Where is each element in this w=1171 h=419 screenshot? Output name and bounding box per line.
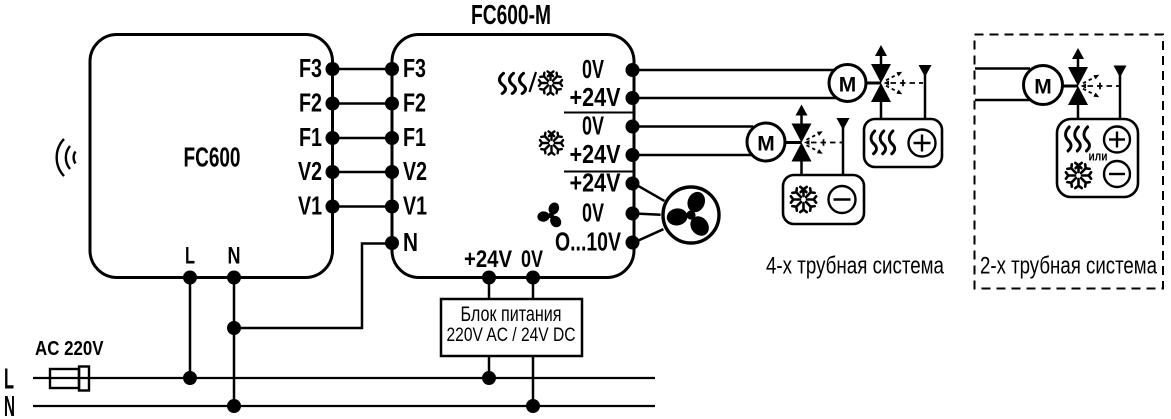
wire top to motor M3 [975,67,1030,70]
junction L line / FC600 [183,371,197,385]
terminal +24V bottom FC600-M [482,271,496,285]
svg-text:N: N [403,229,418,257]
mains N line [33,405,655,407]
svg-text:N: N [228,243,241,270]
terminal +24V row2 [626,91,640,105]
terminal +24V row4 [626,148,640,162]
svg-text:M: M [1034,76,1052,99]
svg-text:2-х трубная система: 2-х трубная система [980,253,1157,280]
cool icon (snowflake) [540,131,563,154]
svg-text:O...10V: O...10V [555,229,621,257]
heat box [864,119,942,167]
svg-text:M: M [757,133,775,156]
wire V1 [333,205,393,208]
mains L line [33,377,655,379]
terminal 0V row1 [626,63,640,77]
svg-text:AC 220V: AC 220V [35,338,104,360]
cool box snowflake icon [791,187,816,212]
heat box plus sign [909,130,936,157]
sensor wire heat [924,72,927,119]
cool box minus sign [829,186,856,213]
svg-text:+24V: +24V [570,141,621,169]
junction L line / power supply [482,371,496,385]
svg-text:N: N [4,391,15,419]
svg-text:F3: F3 [299,55,322,83]
svg-text:FC600: FC600 [184,142,241,173]
svg-text:0V: 0V [521,246,543,273]
motor M2 (cooling valve) [747,123,785,161]
wire 0V down to power supply [532,278,535,300]
wire 0V row1 to motor M1 [634,69,834,72]
wire +24V row5 to fan [634,184,664,201]
svg-text:F2: F2 [403,90,426,118]
terminal N FC600 [227,271,241,285]
svg-text:+24V: +24V [464,246,512,273]
sensor wire cool [842,125,845,175]
svg-text:Блок питания: Блок питания [461,303,562,326]
box FC600-M [392,35,634,278]
svg-text:V2: V2 [403,158,427,186]
svg-text:0V: 0V [582,56,604,84]
motor M3 (2-pipe valve) [1024,66,1063,105]
terminal V2 FC600-M [385,165,399,179]
valve V3 stem down to combo box [1077,105,1080,119]
right-side separator line 1 [564,112,633,114]
wire F3 [333,68,393,71]
terminal F2 FC600 [326,97,340,111]
sensor head for cool circuit [837,118,850,130]
wireless signal icon [57,139,76,176]
combo box snowflake icon [1066,163,1091,188]
stem M3 to valve V3 [1063,85,1079,88]
wire +24V row4 to motor M2 [634,154,755,157]
combo box waves icon [1066,127,1090,151]
heat box waves icon [871,131,895,154]
stem M1 to valve V-heat [866,82,881,85]
power supply box [441,299,582,356]
svg-text:F2: F2 [299,90,322,118]
svg-text:+24V: +24V [570,84,621,112]
terminal V1 FC600-M [385,200,399,214]
wire +24V down to power supply [488,278,491,300]
svg-text:или: или [1089,149,1108,164]
combo heat/cool box [1057,119,1138,197]
svg-text:FC600-M: FC600-M [471,0,551,30]
wire V2 [333,171,393,174]
svg-text:V1: V1 [298,193,322,221]
wire O...10V row7 to fan [634,229,663,242]
wire power supply to N line [532,356,535,406]
dashed enclosure 2-pipe system [975,35,1164,289]
valve stem down to heat box [880,102,883,119]
terminal N FC600-M [385,236,399,250]
stem M2 to valve V-cool [785,141,802,144]
svg-text:L: L [185,243,195,270]
wire bottom to motor M3 [975,99,1032,102]
svg-text:F1: F1 [403,124,426,152]
junction on N wire [227,321,241,335]
terminal F1 FC600-M [385,131,399,145]
wire N branch to FC600-M [234,244,392,329]
wire 0V row3 to motor M2 [634,125,753,128]
wire F1 [333,137,393,140]
terminal F3 FC600 [326,62,340,76]
svg-text:+24V: +24V [570,170,621,198]
fan unit blades [660,189,716,242]
wire 0V row6 to fan [634,214,661,215]
junction N line / power supply [526,399,540,413]
terminal F2 FC600-M [385,97,399,111]
terminal O...10V row7 [626,236,640,250]
sensor wire 2-pipe [1119,72,1122,119]
svg-text:F1: F1 [299,124,322,152]
fan unit circle [663,187,719,243]
terminal F3 FC600-M [385,62,399,76]
svg-text:220V AC / 24V DC: 220V AC / 24V DC [447,325,576,346]
valve V-cool [792,105,844,162]
combo box minus sign [1104,161,1130,187]
terminal F1 FC600 [326,131,340,145]
svg-text:M: M [839,74,857,97]
terminal V2 FC600 [326,165,340,179]
box FC600 [90,35,333,278]
terminal 0V bottom FC600-M [526,271,540,285]
junction N line / FC600 [227,399,241,413]
wire L down from FC600 [189,278,192,379]
valve stem down to cool box [800,162,803,176]
right-side separator line 2 [564,171,633,173]
sensor head for heat circuit [919,65,932,77]
wire power supply to L line [488,356,491,378]
fan small icon [533,201,565,232]
svg-text:F3: F3 [403,55,426,83]
wire N down from FC600 [233,278,236,407]
wire F2 [333,102,393,105]
terminal V1 FC600 [326,200,340,214]
motor M1 (heating valve) [829,65,866,102]
terminal 0V row3 [626,120,640,134]
svg-text:0V: 0V [582,113,604,141]
fuse [50,367,89,391]
svg-text:V1: V1 [403,193,427,221]
sensor head 2-pipe [1114,66,1127,78]
svg-text:4-х трубная система: 4-х трубная система [766,253,944,280]
terminal +24V row5 [626,177,640,191]
valve V3 [1068,48,1120,105]
svg-text:V2: V2 [298,158,322,186]
valve V-heat [871,45,923,102]
heat/cool mode icon (waves / snowflake) [500,71,563,94]
cool box [783,175,864,224]
wire +24V row2 to motor M1 [634,97,836,100]
terminal 0V row6 [626,207,640,221]
svg-text:0V: 0V [582,200,604,228]
terminal L FC600 [183,271,197,285]
combo box plus sign [1104,127,1130,153]
